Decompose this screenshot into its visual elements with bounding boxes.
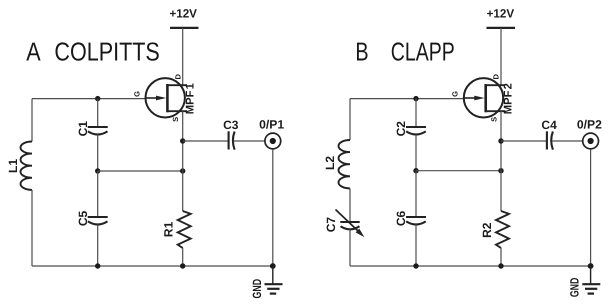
- capacitor C2: [406, 127, 426, 135]
- label C2: [394, 121, 408, 137]
- svg-text:C5: C5: [76, 211, 90, 227]
- inductor L1: [20, 142, 32, 190]
- node: R1 bottom junction: [180, 263, 185, 268]
- svg-text:R2: R2: [480, 222, 494, 238]
- node: C2 top junction on gate rail: [413, 96, 418, 101]
- svg-text:C4: C4: [541, 118, 557, 132]
- node: middle rail right junction (right circuit): [498, 168, 503, 173]
- node: C5 bottom junction: [95, 263, 100, 268]
- svg-text:G: G: [132, 91, 141, 97]
- +12V supply label (left): [169, 7, 197, 21]
- label O/P2: [577, 118, 602, 132]
- wire: C7 to bottom rail: [349, 229, 351, 266]
- pin label G (Q1): [132, 91, 141, 97]
- label L2: [323, 156, 337, 170]
- wire: L2 to C7: [349, 188, 351, 222]
- pin label S (Q1): [171, 117, 180, 122]
- wire: C2 to middle rail: [415, 135, 417, 171]
- ground symbol (left): [265, 266, 283, 294]
- resistor R2: [496, 211, 509, 248]
- svg-text:S: S: [171, 117, 180, 122]
- node: C6 bottom junction: [413, 263, 418, 268]
- node: R2 bottom junction: [498, 263, 503, 268]
- label C7: [324, 217, 338, 233]
- node: ground junction (right): [588, 263, 594, 269]
- svg-text:C2: C2: [394, 121, 408, 137]
- title B CLAPP: [355, 36, 454, 66]
- svg-text:C3: C3: [223, 118, 239, 132]
- transistor Q1 MPF1 (n-channel JFET): [146, 78, 188, 117]
- svg-text:D: D: [173, 74, 182, 80]
- capacitor C5: [88, 217, 108, 225]
- label R2: [480, 222, 494, 238]
- wire: C1 to middle rail: [97, 135, 99, 172]
- capacitor C1: [88, 127, 108, 135]
- label C5: [76, 211, 90, 227]
- svg-text:S: S: [490, 117, 499, 122]
- label R1: [161, 221, 175, 237]
- wire: R2 to bottom rail: [500, 248, 502, 266]
- connector O/P1: [265, 133, 281, 149]
- wire: O/P2 down to ground junction: [590, 149, 592, 266]
- svg-text:G: G: [451, 91, 460, 97]
- wire: gate rail (top horizontal, right circuit): [350, 98, 464, 100]
- +12V supply rail bar (left): [170, 27, 199, 29]
- wire: O/P1 down to ground junction: [272, 149, 274, 266]
- svg-text:GND: GND: [568, 277, 582, 297]
- label MPF2: [503, 83, 515, 114]
- label C6: [394, 211, 408, 227]
- wire: bottom rail (left circuit): [32, 265, 273, 267]
- label MPF1: [184, 83, 196, 114]
- label C3: [223, 118, 239, 132]
- +12V supply rail bar (right): [487, 27, 516, 29]
- capacitor C6: [406, 217, 426, 225]
- svg-text:0/P2: 0/P2: [577, 118, 602, 132]
- capacitor C4: [547, 131, 553, 149]
- variable capacitor C7: [336, 210, 365, 238]
- wire: +12V to drain of Q2: [500, 28, 502, 85]
- wire: left branch vertical (top part above L1): [31, 99, 33, 142]
- svg-text:0/P1: 0/P1: [259, 118, 284, 132]
- resistor R1: [178, 211, 191, 248]
- svg-text:C6: C6: [394, 211, 408, 227]
- wire: middle rail down to C6: [415, 171, 417, 217]
- inductor L2: [339, 140, 351, 188]
- wire: output line from source junction to C4: [501, 140, 546, 142]
- wire: +12V to drain of Q1: [182, 28, 184, 85]
- wire: C4 to O/P2 connector: [552, 140, 582, 142]
- svg-text:GND: GND: [250, 279, 264, 299]
- node: middle rail left junction: [95, 168, 100, 173]
- svg-text:COLPITTS: COLPITTS: [54, 36, 159, 66]
- node: source/output junction: [180, 138, 185, 143]
- label L1: [6, 159, 20, 173]
- pin label D (Q2): [492, 74, 501, 80]
- pin label G (Q2): [451, 91, 460, 97]
- svg-text:D: D: [492, 74, 501, 80]
- label C4: [541, 118, 557, 132]
- ground symbol (right): [582, 266, 600, 294]
- svg-text:A: A: [26, 36, 41, 66]
- svg-text:CLAPP: CLAPP: [391, 36, 455, 66]
- node: C1 top junction on gate rail: [95, 96, 100, 101]
- label C1: [76, 121, 90, 137]
- node: source/output junction (right): [498, 138, 503, 143]
- node: middle rail right junction: [180, 168, 185, 173]
- wire: gate rail down to C2: [415, 99, 417, 127]
- wire: middle rail down to C5: [97, 171, 99, 217]
- wire: output line from source junction to C3: [183, 140, 228, 142]
- wire: gate rail (top horizontal, gate of Q1 to left branch): [32, 98, 146, 100]
- svg-text:R1: R1: [161, 221, 175, 237]
- svg-text:MPF1: MPF1: [184, 83, 196, 114]
- wire: middle rail (right circuit): [416, 170, 501, 172]
- connector O/P2: [583, 133, 599, 149]
- node: middle rail left junction (right circuit): [413, 168, 418, 173]
- wire: middle rail (C1/C5 junction to source branch): [98, 170, 183, 172]
- wire: source of Q1 down to bottom rail (through R1) upper part: [182, 111, 184, 211]
- svg-text:+12V: +12V: [487, 7, 515, 21]
- svg-text:C1: C1: [76, 121, 90, 137]
- capacitor C3: [229, 131, 235, 149]
- wire: left branch vertical (below L1 to bottom rail): [31, 190, 33, 266]
- pin label S (Q2): [490, 117, 499, 122]
- wire: left branch vertical above L2: [349, 99, 351, 140]
- wire: gate rail down to C1: [97, 99, 99, 127]
- label GND (left): [250, 279, 264, 299]
- wire: bottom rail (right circuit): [350, 265, 591, 267]
- svg-text:L1: L1: [6, 159, 20, 173]
- svg-text:MPF2: MPF2: [503, 83, 515, 114]
- wire: source of Q2 down (upper part): [500, 111, 502, 211]
- node: ground junction (left): [270, 263, 276, 269]
- svg-text:C7: C7: [324, 217, 338, 233]
- svg-text:+12V: +12V: [169, 7, 197, 21]
- wire: R1 to bottom rail: [182, 248, 184, 266]
- pin label D (Q1): [173, 74, 182, 80]
- wire: C3 to O/P1 connector: [234, 140, 265, 142]
- wire: C6 to bottom rail: [415, 225, 417, 267]
- label O/P1: [259, 118, 284, 132]
- title A COLPITTS: [26, 36, 160, 66]
- wire: C5 to bottom rail: [97, 225, 99, 267]
- svg-text:B: B: [355, 36, 368, 66]
- svg-text:L2: L2: [323, 156, 337, 170]
- +12V supply label (right): [487, 7, 515, 21]
- label GND (right): [568, 277, 582, 297]
- transistor Q2 MPF2 (n-channel JFET): [464, 78, 506, 117]
